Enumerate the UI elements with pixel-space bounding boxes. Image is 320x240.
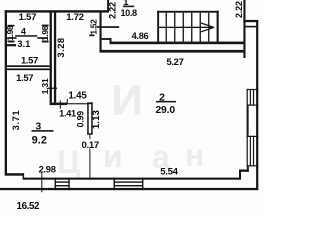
window right wall B hatch [247,136,259,137]
svg-text:3.1: 3.1 [17,39,30,49]
svg-text:1.57: 1.57 [16,72,33,83]
svg-text:0.99: 0.99 [76,111,86,128]
svg-text:2.22: 2.22 [234,1,244,18]
stair box U1 [157,11,159,42]
wall lintel step down [110,38,112,43]
svg-text:3.71: 3.71 [11,110,21,131]
frac bar room3 [32,130,54,132]
tick 1.98 left top [8,25,15,27]
svg-text:2: 2 [159,92,165,103]
svg-text:Ц: Ц [57,144,81,180]
svg-text:и: и [103,138,123,174]
wall right-top connector [243,20,258,22]
wall nib room4 divider [7,44,16,46]
stair arrow line [159,27,212,28]
svg-text:И: И [111,76,143,125]
wall stairwell bottom [110,42,246,45]
wall bottom-right step vertical [239,170,241,180]
stair steps [166,13,167,42]
dimension ticks [8,6,176,193]
window bottom-middle hatch lines [114,181,144,182]
wire left exterior wall [5,10,7,174]
tick 1.52 bottom [89,34,94,36]
wall right sill line below connector [245,26,258,28]
window bottom-left hatch lines [55,181,70,182]
svg-text:1.31: 1.31 [40,78,50,94]
tick 1.98 left bottom [8,41,15,43]
svg-text:1.57: 1.57 [21,54,38,65]
tick 1.98 right bottom [42,41,49,43]
dash right of room4 label [37,37,47,39]
svg-text:1.98: 1.98 [5,25,15,40]
svg-text:9.2: 9.2 [32,134,47,146]
svg-text:4: 4 [21,27,27,37]
leader 1.41 left [60,100,61,109]
svg-text:29.0: 29.0 [155,105,175,116]
wall bottom band bottom line [0,188,258,190]
svg-text:2.22: 2.22 [108,2,118,19]
tick 1.31 / 1.45 cross [48,88,57,89]
tick 2.22 left bottom [97,26,120,28]
wire top exterior wall [5,10,109,12]
wall bottom-left pier top [5,173,24,176]
window right wall A hatch [247,89,259,90]
wall right exterior outer line [256,20,258,189]
watermark CIAN logo shape [57,76,204,180]
wall hall bottom [50,103,67,106]
svg-text:4.86: 4.86 [132,31,149,41]
wall right pier between windows [247,106,249,136]
wall closet floor double line upper [6,65,50,67]
frac bar room2 [156,101,176,103]
svg-text:1.52: 1.52 [89,19,99,35]
frac bar room4 [15,35,37,37]
wall door lintel [102,38,112,40]
wall closet floor double line lower [6,68,50,70]
leader 1.45 [67,99,68,104]
wall corridor double line right [54,11,56,103]
svg-text:0.17: 0.17 [81,140,98,151]
svg-text:1.72: 1.72 [66,12,83,23]
svg-text:2.98: 2.98 [39,164,56,175]
wall stub 0.17 outlined rect [87,102,89,134]
svg-text:н: н [185,137,204,173]
node room1 left wall [100,11,102,52]
svg-text:1.13: 1.13 [90,110,101,129]
wall right-top vertical from image top [243,0,245,58]
wall bottom-right inner corner horizontal [240,170,249,172]
leader 0.17 lower [89,149,90,178]
frac bar room1 [123,6,134,8]
svg-text:5.54: 5.54 [160,166,178,177]
leader 2.98 [41,173,42,193]
stair arrow head [201,23,214,32]
wall right inner corner segment [247,166,249,171]
window bottom divider caps [55,178,56,191]
svg-text:3.28: 3.28 [55,37,66,57]
svg-text:10.8: 10.8 [120,8,137,18]
wall bottom band top line [24,178,241,180]
tick 1.98 right top [42,25,49,27]
svg-text:16.52: 16.52 [17,201,40,212]
svg-text:1: 1 [123,0,128,7]
wall room2 top [100,50,246,53]
svg-text:1.45: 1.45 [68,91,87,102]
wall corridor double line left [50,11,52,103]
leader 0.17 upper [89,135,90,139]
svg-text:1.98: 1.98 [40,25,50,40]
svg-text:5.27: 5.27 [166,56,183,67]
wire thin door line [67,103,88,104]
svg-text:1.41: 1.41 [59,108,76,118]
svg-text:3: 3 [35,121,41,132]
dash left of room4 label [8,37,17,39]
wall bottom-left pier step [23,173,25,179]
svg-text:1.57: 1.57 [19,12,36,23]
wall stub upper-right vertical from image top [107,0,109,12]
